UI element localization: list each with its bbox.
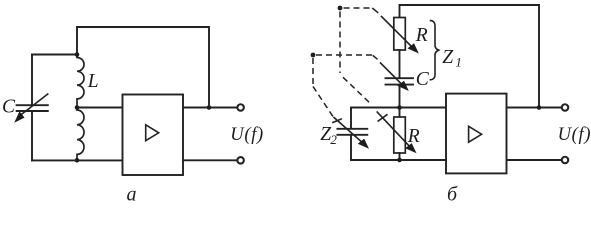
- svg-text:U(f): U(f): [230, 125, 264, 145]
- svg-text:R: R: [415, 25, 428, 46]
- svg-text:б: б: [447, 184, 458, 201]
- svg-text:C: C: [2, 97, 16, 118]
- svg-text:Z: Z: [442, 47, 453, 68]
- svg-text:2: 2: [330, 132, 337, 147]
- svg-text:R: R: [407, 126, 420, 147]
- svg-text:а: а: [127, 183, 137, 201]
- svg-text:U(f): U(f): [558, 125, 591, 145]
- svg-text:C: C: [416, 69, 430, 90]
- svg-text:1: 1: [455, 55, 462, 70]
- svg-text:L: L: [87, 71, 99, 92]
